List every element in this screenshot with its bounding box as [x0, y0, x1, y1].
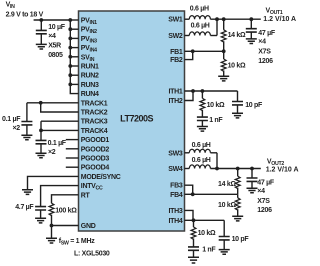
svg-text:10 kΩ: 10 kΩ	[218, 202, 236, 209]
wire L2 out	[210, 35, 217, 37]
svg-text:PGOOD3: PGOOD3	[81, 156, 110, 163]
wire ITH2 elbow	[185, 91, 194, 101]
L4 value 0.6uH	[192, 157, 211, 164]
junction C-OUT1	[249, 17, 253, 21]
junction bus SVIN	[68, 55, 72, 59]
wire stub RUN2	[70, 74, 78, 76]
resistor R-RT 100k	[49, 203, 54, 215]
pin label SW2	[168, 33, 183, 40]
pin label FB3	[170, 183, 183, 190]
svg-text:MODE/SYNC: MODE/SYNC	[81, 174, 121, 181]
svg-text:TRACK3: TRACK3	[81, 119, 108, 126]
ground C6	[219, 250, 230, 255]
wire SW3-SW4 link	[216, 153, 218, 169]
junction bus RUN2	[68, 73, 72, 77]
pin label RUN3	[81, 82, 99, 89]
note fsw	[59, 238, 95, 247]
wire INTVCC	[41, 186, 79, 207]
COUT2 type X7S	[257, 198, 270, 205]
pin label FB2	[170, 57, 183, 64]
svg-text:X7S: X7S	[258, 48, 271, 55]
wire ITH4 node	[185, 219, 225, 221]
junction R-FB1 top	[222, 17, 226, 21]
capacitor C4 10pF	[232, 102, 243, 105]
svg-text:47 µF: 47 µF	[258, 30, 276, 37]
wire C4 drop	[237, 91, 239, 101]
pin label SW3	[168, 150, 183, 157]
junction bus PVIN4	[68, 46, 72, 50]
C6 value 10pF	[232, 236, 250, 243]
pin label PGOOD1	[81, 137, 110, 144]
inductor L3 0.6uH	[189, 149, 210, 153]
R6 value 10k	[198, 230, 216, 237]
pin label INTVCC	[81, 183, 103, 192]
svg-text:0.6 µH: 0.6 µH	[192, 142, 211, 149]
pin label ITH1	[169, 89, 183, 96]
svg-text:14 kΩ: 14 kΩ	[218, 181, 236, 188]
junction TRACK1/TRACK2	[39, 101, 43, 105]
capacitor CIN 10uF	[36, 30, 47, 33]
ground main	[46, 238, 57, 243]
capacitor CT2 0.1uF	[36, 140, 47, 143]
svg-text:SW4: SW4	[168, 166, 183, 173]
COUT1 qty x4	[258, 39, 266, 46]
svg-text:FB4: FB4	[170, 192, 183, 199]
pin label ITH3	[169, 208, 183, 215]
wire R3 to C 1nF	[201, 110, 203, 117]
svg-text:×2: ×2	[48, 149, 56, 156]
junction bus PVIN2	[68, 27, 72, 31]
wire stub PGOOD3	[66, 157, 79, 159]
CT1 qty x2	[13, 125, 21, 132]
capacitor C-INTVCC 4.7uF	[35, 207, 46, 210]
wire R4 bottom lead	[237, 188, 239, 195]
pin label SW1	[168, 17, 183, 24]
svg-text:SW3: SW3	[168, 150, 183, 157]
svg-text:4.7 µF: 4.7 µF	[15, 204, 34, 211]
svg-text:10 kΩ: 10 kΩ	[207, 102, 225, 109]
svg-text:L: XGL5030: L: XGL5030	[74, 250, 110, 257]
ground R5	[232, 216, 243, 221]
svg-text:PGOOD4: PGOOD4	[81, 165, 110, 172]
svg-text:RUN2: RUN2	[81, 73, 99, 80]
svg-text:0.6 µH: 0.6 µH	[190, 5, 209, 12]
svg-text:PGOOD1: PGOOD1	[81, 137, 110, 144]
wire C5 bottom lead	[193, 250, 195, 257]
CIN value 10uF	[48, 24, 66, 31]
C-INTVCC value 4.7uF	[15, 204, 34, 211]
R3 value 10k	[207, 102, 225, 109]
wire C-OUT2 top lead	[251, 169, 253, 178]
CT2 value 0.1uF	[48, 140, 67, 147]
svg-text:VIN: VIN	[6, 2, 16, 11]
svg-text:×4: ×4	[257, 188, 265, 195]
wire C-INTVCC bottom lead	[40, 210, 42, 218]
wire stub RUN1	[70, 65, 78, 67]
ground CIN	[36, 44, 47, 49]
svg-text:×2: ×2	[13, 125, 21, 132]
COUT1 size 1206	[258, 58, 273, 65]
pin label SW4	[168, 166, 183, 173]
wire ITH3 elbow	[185, 210, 194, 220]
L2 value 0.6uH	[191, 23, 210, 30]
svg-text:1 nF: 1 nF	[209, 117, 223, 124]
pin label GND	[81, 223, 96, 230]
pin label TRACK3	[81, 119, 108, 126]
COUT2 value 47uF	[257, 180, 275, 187]
svg-text:0805: 0805	[48, 52, 63, 59]
wire CT2 top lead	[40, 130, 42, 140]
resistor R6 10k	[191, 227, 196, 239]
junction FB4	[191, 192, 195, 196]
pin label FB4	[170, 192, 183, 199]
wire stub SVIN	[70, 56, 78, 58]
wire SW2 stub	[185, 35, 190, 37]
pin label RUN2	[81, 73, 99, 80]
svg-text:fSW = 1 MHz: fSW = 1 MHz	[59, 238, 95, 247]
ground R2	[218, 76, 229, 81]
note inductor type	[74, 250, 110, 257]
junction bus RUN1	[68, 64, 72, 68]
wire R1 bottom lead	[223, 41, 225, 51]
wire stub PGOOD4	[66, 166, 79, 168]
svg-text:TRACK2: TRACK2	[81, 110, 108, 117]
svg-text:0.6 µH: 0.6 µH	[192, 157, 211, 164]
pin label TRACK1	[81, 100, 108, 107]
wire stub PVIN3	[70, 37, 78, 39]
svg-text:RUN1: RUN1	[81, 64, 99, 71]
svg-text:47 µF: 47 µF	[257, 180, 275, 187]
VIN range text	[6, 11, 44, 18]
inductor L2 0.6uH	[189, 32, 210, 36]
pin label PVIN3	[81, 36, 97, 45]
svg-text:TRACK1: TRACK1	[81, 100, 108, 107]
R-RT value 100k	[55, 208, 77, 215]
wire SW4 stub	[185, 168, 190, 170]
pin label ITH2	[169, 98, 183, 105]
svg-text:10 kΩ: 10 kΩ	[198, 230, 216, 237]
capacitor CT1 0.1uF	[21, 122, 32, 125]
wire R-RT bottom to gnd node	[51, 215, 53, 238]
svg-text:VOUT1: VOUT1	[266, 8, 283, 17]
svg-text:×4: ×4	[258, 39, 266, 46]
pin label PGOOD3	[81, 156, 110, 163]
svg-text:LT7200S: LT7200S	[120, 113, 153, 123]
svg-text:ITH4: ITH4	[169, 218, 183, 225]
svg-text:×4: ×4	[48, 33, 56, 40]
capacitor C3 1nF	[197, 117, 208, 120]
svg-text:10 pF: 10 pF	[245, 102, 263, 109]
wire COUT2 bottom lead	[251, 181, 253, 188]
resistor R2 10k	[221, 59, 226, 71]
svg-text:2.9 V to 18 V: 2.9 V to 18 V	[6, 11, 44, 18]
svg-text:100 kΩ: 100 kΩ	[55, 208, 77, 215]
wire TRACK1	[27, 102, 79, 104]
capacitor C6 10pF	[219, 237, 230, 240]
svg-text:1206: 1206	[258, 58, 273, 65]
pin label PVIN2	[81, 27, 97, 36]
wire FB1 node	[193, 50, 224, 52]
svg-text:10 µF: 10 µF	[48, 24, 66, 31]
wire FB3 elbow	[185, 185, 193, 194]
resistor R4 14k	[235, 176, 240, 188]
svg-text:FB3: FB3	[170, 183, 183, 190]
pin label MODE/SYNC	[81, 174, 121, 181]
svg-text:RUN4: RUN4	[81, 91, 99, 98]
ground COUT2	[247, 188, 258, 193]
COUT1 type X7S	[258, 48, 271, 55]
wire C3 bottom lead	[201, 121, 203, 127]
CT2 qty x2	[48, 149, 56, 156]
junction SW link ch1	[215, 17, 219, 21]
pin label PVIN4	[81, 45, 97, 54]
svg-text:0.1 µF: 0.1 µF	[2, 116, 21, 123]
junction ITH4	[192, 218, 196, 222]
pin label PGOOD4	[81, 165, 110, 172]
wire VIN feed to input bus	[34, 19, 71, 21]
R4 value 14k	[218, 181, 236, 188]
svg-text:GND: GND	[81, 223, 96, 230]
pin label PGOOD2	[81, 146, 110, 153]
op-amp U1 LT7200S chip body	[79, 11, 185, 231]
wire R5 top lead	[237, 194, 239, 198]
junction bus PVIN1	[68, 18, 72, 22]
svg-text:ITH2: ITH2	[169, 98, 183, 105]
junction ITH1 left	[191, 89, 195, 93]
svg-text:X5R: X5R	[48, 43, 61, 50]
svg-text:TRACK4: TRACK4	[81, 128, 108, 135]
net label VOUT1	[266, 8, 283, 17]
ground C3	[197, 127, 208, 132]
wire GND pin	[52, 225, 79, 227]
junction TRACK4	[39, 129, 43, 133]
ground MODE/SYNC	[22, 190, 33, 195]
resistor R5 10k	[235, 198, 240, 210]
junction SW link ch2	[215, 167, 219, 171]
ground C-INTVCC	[35, 218, 46, 223]
C5 value 1nF	[202, 247, 216, 254]
ground CT2	[36, 153, 47, 158]
wire TRACK3-TRACK4 link	[40, 121, 42, 130]
resistor R3 10k	[200, 98, 205, 110]
svg-text:SW1: SW1	[168, 17, 183, 24]
ground COUT1	[246, 39, 257, 44]
C3 value 1nF	[209, 117, 223, 124]
wire CT2 bottom lead	[40, 144, 42, 153]
COUT2 qty x4	[257, 188, 265, 195]
svg-text:1.2 V/10 A: 1.2 V/10 A	[266, 166, 299, 173]
ground C5	[188, 257, 199, 263]
wire TRACK2 elbow	[41, 103, 79, 112]
pin label RT	[81, 192, 91, 199]
U1 label LT7200S	[120, 113, 153, 123]
resistor R1 14k	[221, 30, 226, 42]
svg-text:FB1: FB1	[170, 49, 183, 56]
wire C4 bottom lead	[237, 105, 239, 113]
net label VOUT2	[267, 158, 284, 167]
VOUT1 rating	[263, 16, 296, 23]
pin label RUN1	[81, 64, 99, 71]
wire COUT1 bottom lead	[250, 32, 252, 39]
wire stub PGOOD1	[66, 139, 79, 141]
wire R2 top lead	[223, 51, 225, 59]
wire TRACK4	[41, 129, 79, 131]
L1 value 0.6uH	[190, 5, 209, 12]
CT1 value 0.1uF	[2, 116, 21, 123]
svg-text:10 pF: 10 pF	[232, 236, 250, 243]
svg-text:X7S: X7S	[257, 198, 270, 205]
wire C6 drop	[223, 220, 225, 236]
pin label SVIN	[81, 54, 95, 63]
wire SW3 stub	[185, 152, 190, 154]
junction bus PVIN3	[68, 37, 72, 41]
junction GND node	[50, 224, 54, 228]
CIN type X5R	[48, 43, 61, 50]
COUT1 value 47uF	[258, 30, 276, 37]
svg-text:10 kΩ: 10 kΩ	[228, 62, 246, 69]
R1 value 14k	[228, 32, 246, 39]
wire VOUT2 rail	[210, 168, 260, 170]
svg-text:14 kΩ: 14 kΩ	[228, 32, 246, 39]
svg-text:SW2: SW2	[168, 33, 183, 40]
ground C4	[232, 113, 243, 118]
wire C6 bottom lead	[223, 240, 225, 250]
R2 value 10k	[228, 62, 246, 69]
wire SW1-SW2 link	[216, 19, 218, 35]
net label VIN	[6, 2, 16, 11]
pin label RUN4	[81, 91, 99, 98]
wire FB4 stub	[185, 193, 193, 195]
VOUT2 rating	[266, 166, 299, 173]
wire C-OUT1 top lead	[250, 19, 252, 28]
wire TRACK3	[41, 120, 79, 122]
svg-text:1.2 V/10 A: 1.2 V/10 A	[263, 16, 296, 23]
ground CT1	[21, 135, 32, 140]
inductor L4 0.6uH	[189, 165, 210, 169]
wire L3 out	[210, 152, 217, 154]
COUT2 size 1206	[257, 207, 272, 214]
junction ITH1 R	[201, 89, 205, 93]
wire FB4 node	[193, 193, 238, 195]
wire FB1 stub	[185, 50, 193, 52]
junction C-OUT2	[250, 167, 254, 171]
L3 value 0.6uH	[192, 142, 211, 149]
C4 value 10pF	[245, 102, 263, 109]
wire R1 top lead	[223, 19, 225, 30]
wire input bus vertical + RUN4 elbow	[70, 20, 78, 94]
wire C-track1 drop	[26, 103, 28, 122]
pin label TRACK4	[81, 128, 108, 135]
junction FB1 right	[222, 49, 226, 53]
svg-text:1206: 1206	[257, 207, 272, 214]
capacitor COUT1 47uF	[246, 29, 257, 32]
capacitor COUT2 47uF	[247, 178, 258, 181]
junction bus RUN3	[68, 83, 72, 87]
svg-text:RUN3: RUN3	[81, 82, 99, 89]
CIN size 0805	[48, 52, 63, 59]
svg-text:PGOOD2: PGOOD2	[81, 146, 110, 153]
svg-text:1 nF: 1 nF	[202, 247, 216, 254]
svg-text:FB2: FB2	[170, 57, 183, 64]
wire R4 top lead	[237, 169, 239, 177]
pin label ITH4	[169, 218, 183, 225]
wire FB2 elbow	[185, 51, 193, 59]
pin label PVIN1	[81, 18, 97, 27]
svg-text:0.6 µH: 0.6 µH	[191, 23, 210, 30]
junction R4 top	[236, 167, 240, 171]
pin label FB1	[170, 49, 183, 56]
junction input cap	[39, 18, 43, 22]
wire R6 top lead	[193, 220, 195, 227]
wire stub PVIN2	[70, 28, 78, 30]
svg-text:ITH3: ITH3	[169, 208, 183, 215]
wire stub PGOOD2	[66, 148, 79, 150]
wire R3 top lead	[201, 91, 203, 98]
pin label TRACK2	[81, 110, 108, 117]
wire SW1 stub	[185, 18, 190, 20]
wire RT	[52, 195, 79, 203]
wire stub PVIN1	[70, 19, 78, 21]
svg-text:RT: RT	[81, 192, 91, 199]
wire MODE/SYNC to ground	[28, 176, 79, 189]
wire R2 bottom lead	[223, 70, 225, 76]
wire stub PVIN4	[70, 47, 78, 49]
inductor L1 0.6uH	[189, 16, 210, 20]
svg-text:0.1 µF: 0.1 µF	[48, 140, 67, 147]
wire R5 bottom lead	[237, 209, 239, 216]
wire ITH1 node	[185, 90, 238, 92]
svg-text:ITH1: ITH1	[169, 89, 183, 96]
R5 value 10k	[218, 202, 236, 209]
junction FB1 left	[191, 49, 195, 53]
capacitor C5 1nF	[188, 247, 199, 250]
wire CIN bottom lead	[40, 34, 42, 44]
wire CIN top lead	[40, 20, 42, 30]
CIN qty x4	[48, 33, 56, 40]
wire stub RUN3	[70, 83, 78, 85]
wire CT1 bottom lead	[26, 125, 28, 135]
wire R6 to C5	[193, 238, 195, 246]
wire VOUT1 rail	[210, 18, 260, 20]
